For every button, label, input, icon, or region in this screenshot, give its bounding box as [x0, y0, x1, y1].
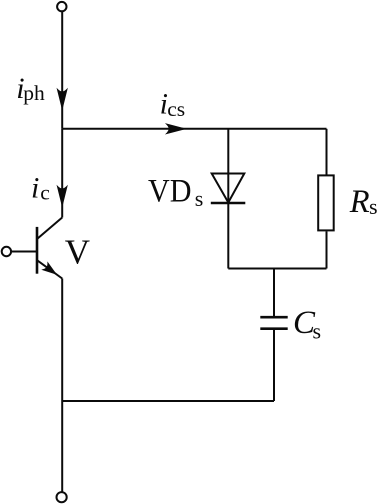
- wire capacitor upper: [273, 269, 275, 317]
- wire bottom vertical: [61, 401, 63, 492]
- svg-text:i: i: [31, 172, 39, 205]
- transistor V emitter lead: [37, 260, 62, 278]
- svg-text:s: s: [313, 319, 322, 344]
- svg-text:s: s: [195, 186, 204, 211]
- svg-text:V: V: [65, 232, 90, 271]
- wire emitter vertical: [61, 279, 63, 402]
- wire top vertical: [61, 12, 63, 129]
- wire diode branch upper: [227, 129, 229, 203]
- wire diode branch lower: [227, 203, 229, 269]
- transistor V collector lead: [37, 218, 62, 240]
- wire bottom horizontal: [62, 400, 274, 402]
- capacitor Cs top plate: [260, 316, 287, 319]
- svg-text:c: c: [40, 180, 50, 204]
- svg-text:R: R: [349, 184, 370, 220]
- transistor V base wire: [11, 251, 37, 253]
- diode VDs cathode bar: [211, 202, 246, 204]
- terminal bottom: [57, 492, 67, 502]
- svg-text:cs: cs: [167, 97, 185, 121]
- arrow iph (down): [58, 90, 66, 107]
- transistor V base bar: [36, 227, 39, 274]
- wire top horizontal: [62, 128, 326, 130]
- wire bottom rail of diode/resistor: [228, 268, 326, 270]
- wire resistor branch lower: [326, 231, 328, 268]
- arrow ic (down): [58, 187, 66, 204]
- wire capacitor lower: [273, 330, 275, 401]
- resistor Rs body: [318, 175, 334, 230]
- svg-text:s: s: [369, 194, 377, 219]
- svg-text:ph: ph: [23, 81, 45, 105]
- wire resistor branch upper: [326, 129, 328, 176]
- diode VDs triangle: [212, 174, 245, 203]
- terminal base: [2, 247, 11, 256]
- transistor V emitter arrow: [44, 264, 58, 277]
- capacitor Cs bottom plate: [260, 327, 287, 330]
- svg-text:VD: VD: [148, 174, 192, 210]
- arrow ics (right): [168, 125, 184, 133]
- wire collector vertical: [61, 129, 63, 218]
- terminal top: [57, 2, 66, 11]
